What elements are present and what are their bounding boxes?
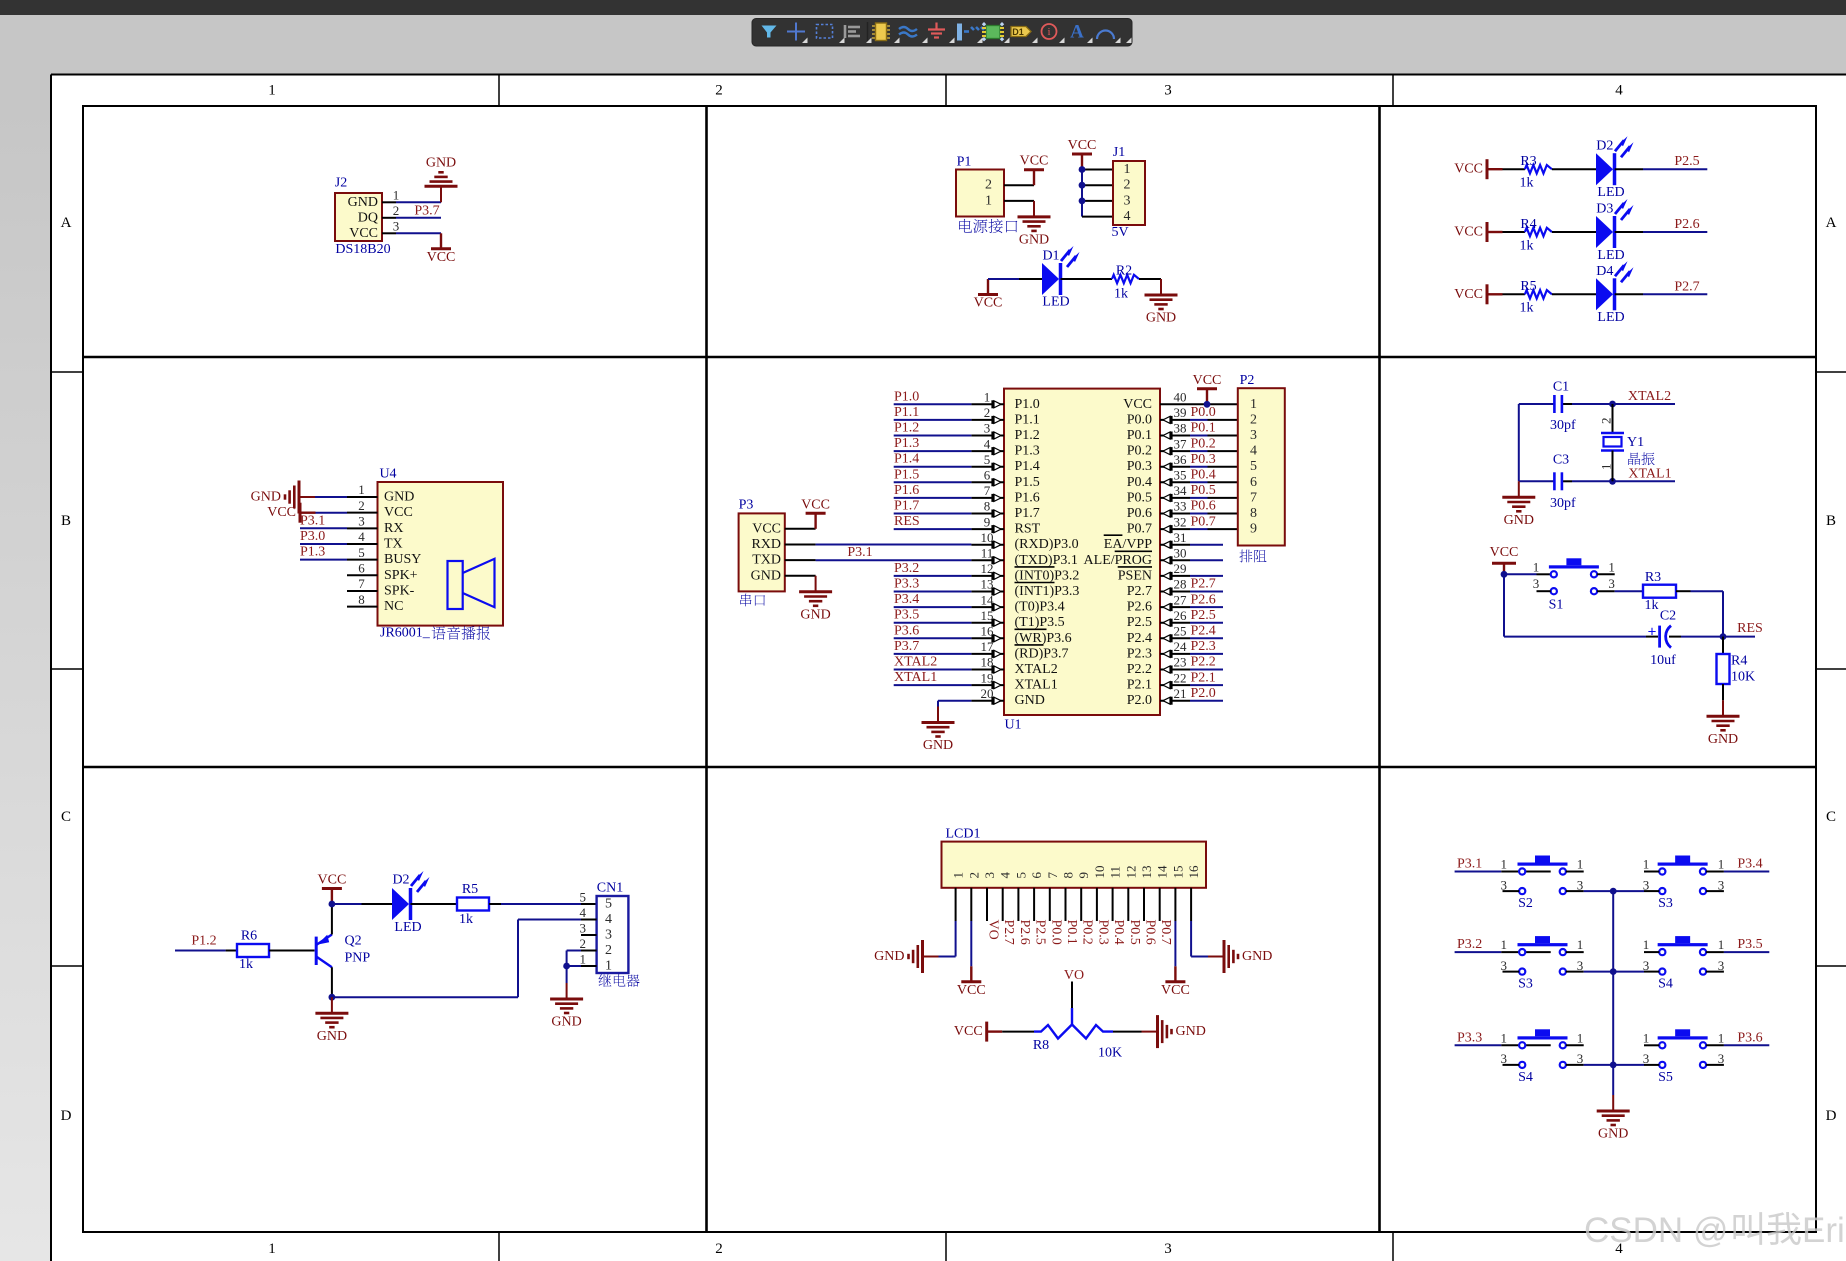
svg-text:P0.5: P0.5	[1127, 920, 1142, 945]
svg-text:(T1)P3.5: (T1)P3.5	[1015, 615, 1065, 630]
sheet outer border	[51, 74, 1846, 76]
svg-text:TX: TX	[384, 536, 403, 551]
resistor R6 1k	[237, 929, 269, 973]
svg-text:P1.0: P1.0	[894, 389, 919, 404]
svg-text:GND: GND	[1019, 233, 1049, 248]
svg-text:P2.6: P2.6	[1191, 592, 1216, 607]
wire to RES label	[1723, 636, 1755, 638]
svg-text:S2: S2	[1518, 896, 1533, 911]
J2 pin wires	[382, 188, 441, 234]
diode D4 LED	[1596, 261, 1634, 325]
svg-text:P2.6: P2.6	[1674, 217, 1699, 232]
svg-text:3: 3	[605, 928, 612, 943]
svg-text:1: 1	[1643, 857, 1650, 872]
svg-text:P1.1: P1.1	[1015, 412, 1040, 427]
ground GND (R8 right)	[1142, 1015, 1206, 1048]
wire S3 to P3.4	[1724, 871, 1769, 873]
svg-text:2: 2	[1124, 178, 1131, 193]
junction dot row2	[1610, 968, 1617, 975]
svg-text:35: 35	[1174, 468, 1187, 483]
svg-text:P0.3: P0.3	[1127, 459, 1152, 474]
wire D3 to P2.6	[1615, 231, 1708, 233]
svg-text:5: 5	[605, 897, 612, 912]
svg-text:13: 13	[981, 577, 994, 592]
svg-text:5: 5	[1250, 459, 1257, 474]
CN1 pin2 wire	[567, 951, 597, 967]
svg-text:LED: LED	[394, 920, 421, 935]
svg-text:GND: GND	[923, 738, 953, 753]
resistor R4 1k	[1520, 217, 1552, 254]
svg-text:1k: 1k	[1114, 287, 1128, 302]
diode D2 LED	[1596, 136, 1634, 200]
wire R5 to D4	[1552, 293, 1596, 295]
svg-text:VCC: VCC	[752, 521, 781, 536]
svg-text:24: 24	[1174, 639, 1188, 654]
svg-text:40: 40	[1174, 390, 1187, 405]
svg-text:P1.4: P1.4	[1015, 459, 1040, 474]
svg-text:4: 4	[1250, 444, 1257, 459]
wire bus to S4	[1613, 971, 1644, 973]
svg-text:(INT0)P3.2: (INT0)P3.2	[1015, 568, 1080, 583]
svg-text:TXD: TXD	[752, 553, 781, 568]
ground GND (R4)	[1707, 700, 1740, 747]
svg-text:P3.2: P3.2	[1457, 937, 1482, 952]
svg-text:1: 1	[1577, 1030, 1584, 1045]
connector LCD1	[942, 827, 1207, 888]
svg-text:J2: J2	[335, 176, 347, 191]
svg-text:VCC: VCC	[954, 1024, 983, 1039]
junction dot CN1 pin1	[563, 963, 570, 970]
power VCC (Q2)	[318, 873, 347, 905]
电源接口 label	[959, 219, 1017, 233]
svg-text:P0.1: P0.1	[1191, 421, 1216, 436]
svg-text:P0.3: P0.3	[1095, 920, 1110, 945]
svg-text:P3.3: P3.3	[894, 577, 919, 592]
switch S2 (left col)	[1501, 856, 1584, 912]
svg-text:P0.1: P0.1	[1064, 920, 1079, 945]
svg-text:3: 3	[1643, 1051, 1650, 1066]
power VCC (LCD pin15)	[1161, 966, 1190, 998]
svg-text:D4: D4	[1596, 264, 1613, 279]
junction dot RES	[1720, 633, 1727, 640]
svg-text:3: 3	[1577, 877, 1584, 892]
svg-text:VCC: VCC	[318, 873, 347, 888]
wire S1 to R3	[1615, 590, 1643, 592]
CN1 pin1 wire	[567, 965, 597, 967]
svg-text:4: 4	[580, 905, 587, 920]
svg-text:P1.6: P1.6	[894, 483, 919, 498]
svg-text:P3.4: P3.4	[1737, 857, 1762, 872]
svg-text:3: 3	[1124, 193, 1131, 208]
svg-text:1: 1	[1643, 937, 1650, 952]
diode D3 LED	[1596, 199, 1634, 263]
svg-text:1: 1	[580, 952, 587, 967]
svg-text:1: 1	[1250, 397, 1257, 412]
svg-text:GND: GND	[800, 608, 830, 623]
svg-text:2: 2	[358, 498, 365, 513]
net RES wire (RST)	[894, 514, 972, 529]
svg-text:P2.4: P2.4	[1127, 631, 1152, 646]
svg-text:3: 3	[1501, 877, 1508, 892]
svg-text:P0.2: P0.2	[1080, 920, 1095, 945]
svg-text:4: 4	[358, 529, 365, 544]
wire D2 to R5	[411, 903, 458, 905]
svg-text:C2: C2	[1660, 608, 1676, 623]
LCD pin15 wire to VCC	[1174, 921, 1176, 966]
CN1 pin4 wire	[518, 920, 597, 998]
svg-text:P0.6: P0.6	[1143, 920, 1158, 945]
ground GND (LCD pin1)	[874, 940, 938, 973]
junction dot pin40	[1204, 401, 1211, 408]
CN1 pin3 stub	[581, 934, 597, 936]
svg-text:B: B	[1826, 513, 1836, 529]
svg-text:D2: D2	[392, 873, 409, 888]
svg-text:P0.0: P0.0	[1127, 412, 1152, 427]
svg-text:16: 16	[1186, 865, 1201, 879]
svg-text:3: 3	[1501, 1051, 1508, 1066]
svg-text:P0.2: P0.2	[1191, 436, 1216, 451]
svg-text:7: 7	[358, 576, 365, 591]
svg-text:2: 2	[985, 178, 992, 193]
svg-text:P0.7: P0.7	[1191, 514, 1216, 529]
svg-text:DQ: DQ	[358, 210, 378, 225]
junction dot row3	[1610, 1062, 1617, 1069]
svg-text:4: 4	[984, 436, 991, 451]
svg-text:P2.6: P2.6	[1127, 600, 1152, 615]
svg-text:R3: R3	[1645, 570, 1661, 585]
connector CN1 relay	[580, 881, 629, 974]
resistor R3 1k (reset)	[1643, 570, 1676, 613]
svg-text:R8: R8	[1033, 1038, 1049, 1053]
svg-text:17: 17	[981, 639, 995, 654]
svg-text:6: 6	[1250, 475, 1257, 490]
svg-text:30: 30	[1174, 546, 1187, 561]
svg-text:P2.3: P2.3	[1191, 639, 1216, 654]
J1 bus wire	[1082, 170, 1113, 217]
svg-text:1: 1	[985, 193, 992, 208]
svg-text:1: 1	[1608, 559, 1615, 574]
svg-text:GND: GND	[1504, 513, 1534, 528]
power VCC (LCD pin2)	[957, 966, 986, 998]
wire bus to S3	[1613, 890, 1644, 892]
IC U4 JR6001 voice module	[378, 467, 504, 626]
P3 pin stubs	[785, 529, 816, 576]
power VCC (R8 left)	[954, 1022, 1002, 1042]
svg-text:XTAL1: XTAL1	[1015, 678, 1058, 693]
串口 label	[740, 594, 765, 607]
wire R4 to D3	[1552, 231, 1596, 233]
LCD pin16 wire to GND	[1191, 921, 1208, 957]
svg-text:C3: C3	[1553, 453, 1569, 468]
svg-text:DS18B20: DS18B20	[335, 242, 390, 257]
top application bar	[0, 0, 1846, 15]
wire R8 to GND	[1113, 1031, 1142, 1033]
XTAL wires	[894, 655, 972, 686]
svg-text:SPK-: SPK-	[384, 583, 415, 598]
PSEN wire	[1190, 575, 1223, 577]
svg-text:3: 3	[393, 219, 400, 234]
svg-text:19: 19	[981, 670, 994, 685]
U4 designator JR6001_语音播报	[380, 626, 490, 641]
svg-text:VCC: VCC	[1123, 397, 1152, 412]
svg-text:VCC: VCC	[384, 505, 413, 520]
connector P1 (power)	[956, 155, 1004, 217]
wire R2 to GND	[1139, 278, 1161, 280]
power VCC (J2 pin3)	[427, 233, 456, 264]
wire D4 to P2.7	[1615, 293, 1708, 295]
resistor R4 10K	[1717, 637, 1756, 701]
svg-text:23: 23	[1174, 655, 1187, 670]
switch S3 (right col)	[1643, 856, 1725, 912]
svg-text:S3: S3	[1518, 977, 1533, 992]
svg-text:P2.1: P2.1	[1127, 678, 1152, 693]
svg-text:P1.1: P1.1	[894, 405, 919, 420]
zone reference ticks	[498, 75, 500, 107]
svg-text:VCC: VCC	[427, 250, 456, 265]
svg-text:P2.0: P2.0	[1127, 693, 1152, 708]
ground GND (D1 row)	[1145, 279, 1178, 326]
svg-text:VCC: VCC	[1068, 138, 1097, 153]
svg-text:39: 39	[1174, 405, 1187, 420]
Q2 collector wire to VCC	[331, 904, 333, 935]
svg-text:15: 15	[981, 608, 994, 623]
svg-text:B: B	[61, 513, 71, 529]
power VCC (D3 row)	[1454, 222, 1502, 242]
svg-text:NC: NC	[384, 599, 403, 614]
U1 VCC pin40 wire	[1190, 403, 1238, 405]
IC U1 8051 MCU body	[1004, 389, 1160, 733]
U1 right pin stubs and numbers	[1160, 390, 1190, 705]
svg-text:1: 1	[1718, 857, 1725, 872]
junction dots J1	[1079, 166, 1086, 204]
VO wiper wire	[1071, 982, 1073, 1025]
svg-text:3: 3	[1718, 1051, 1725, 1066]
svg-text:P1.2: P1.2	[191, 934, 216, 949]
svg-text:P3.5: P3.5	[1737, 937, 1762, 952]
svg-text:VCC: VCC	[349, 226, 378, 241]
wire VCC to R5	[1503, 293, 1525, 295]
svg-text:VO: VO	[986, 920, 1001, 940]
resistor R5 1k	[1520, 279, 1552, 316]
svg-text:GND: GND	[1015, 693, 1045, 708]
svg-text:S1: S1	[1549, 598, 1564, 613]
svg-text:RES: RES	[894, 514, 920, 529]
svg-text:XTAL1: XTAL1	[1628, 467, 1671, 482]
wire VCC to D1	[988, 278, 1042, 280]
Q2 emitter wire	[331, 967, 333, 997]
svg-text:P2.5: P2.5	[1033, 920, 1048, 945]
svg-text:S4: S4	[1518, 1070, 1533, 1085]
svg-text:P0.2: P0.2	[1127, 444, 1152, 459]
svg-text:13: 13	[1139, 866, 1154, 879]
svg-text:30pf: 30pf	[1550, 496, 1576, 511]
svg-text:R5: R5	[462, 882, 478, 897]
svg-text:1k: 1k	[1520, 238, 1534, 253]
svg-text:(RXD)P3.0: (RXD)P3.0	[1015, 537, 1079, 552]
svg-text:D: D	[61, 1108, 72, 1124]
U1 right pin names	[1084, 397, 1153, 708]
svg-text:2: 2	[984, 405, 991, 420]
ground GND (J2 pin1)	[425, 156, 458, 203]
svg-text:U1: U1	[1004, 718, 1021, 733]
svg-text:S4: S4	[1658, 977, 1673, 992]
svg-text:VCC: VCC	[1454, 225, 1483, 240]
svg-text:VO: VO	[1064, 968, 1084, 983]
LCD pin2 wire to VCC	[970, 921, 972, 966]
svg-text:3: 3	[1718, 958, 1725, 973]
svg-text:1: 1	[1501, 857, 1508, 872]
svg-text:P0.7: P0.7	[1127, 522, 1152, 537]
floating toolbar	[752, 19, 1132, 47]
svg-text:GND: GND	[426, 156, 456, 171]
svg-text:VCC: VCC	[957, 983, 986, 998]
svg-text:P0.5: P0.5	[1127, 490, 1152, 505]
svg-text:P0.7: P0.7	[1158, 920, 1173, 945]
wire Q2 emitter to CN1 pin4	[332, 996, 518, 998]
svg-text:11: 11	[981, 546, 994, 561]
ground GND (U1 pin20)	[922, 707, 955, 754]
svg-text:P3.1: P3.1	[1457, 857, 1482, 872]
svg-text:3: 3	[1718, 877, 1725, 892]
svg-text:P2.7: P2.7	[1191, 577, 1216, 592]
svg-text:2: 2	[966, 872, 981, 879]
wire D1 to R2	[1061, 278, 1113, 280]
power VCC (D4 row)	[1454, 284, 1502, 304]
svg-text:P2.2: P2.2	[1191, 655, 1216, 670]
svg-text:2: 2	[715, 83, 723, 99]
svg-text:P2.1: P2.1	[1191, 670, 1216, 685]
svg-text:16: 16	[981, 624, 995, 639]
svg-text:1: 1	[1533, 559, 1540, 574]
wire VCC to R8	[1002, 1031, 1034, 1033]
svg-text:(RD)P3.7: (RD)P3.7	[1015, 646, 1069, 661]
svg-text:VCC: VCC	[1454, 287, 1483, 302]
switch S3 (left col)	[1501, 936, 1584, 992]
svg-text:P2.7: P2.7	[1001, 920, 1016, 945]
svg-text:14: 14	[981, 592, 995, 607]
svg-text:XTAL2: XTAL2	[1628, 389, 1671, 404]
svg-text:P2.5: P2.5	[1191, 608, 1216, 623]
wire bus to S5	[1613, 1064, 1644, 1066]
LCD1 pin stubs	[956, 888, 1192, 921]
svg-text:Y1: Y1	[1627, 435, 1644, 450]
power VCC (D1 row)	[974, 279, 1003, 311]
wire P1.2 to R6	[175, 950, 237, 952]
svg-text:1: 1	[358, 482, 365, 497]
svg-text:1: 1	[984, 390, 991, 405]
svg-text:VCC: VCC	[974, 296, 1003, 311]
svg-text:VCC: VCC	[1161, 983, 1190, 998]
svg-text:8: 8	[1061, 872, 1076, 879]
svg-text:1k: 1k	[459, 912, 473, 927]
wire VCC node to D2	[332, 903, 392, 905]
svg-text:CN1: CN1	[597, 881, 623, 896]
svg-text:30pf: 30pf	[1550, 418, 1576, 433]
switch S1	[1533, 558, 1615, 612]
capacitor C2 10uf electrolytic	[1648, 608, 1677, 668]
crystal Y1 晶振	[1599, 404, 1645, 481]
svg-text:5: 5	[358, 545, 365, 560]
junction dot Q2 collector	[329, 901, 336, 908]
svg-text:C: C	[61, 809, 71, 825]
svg-text:LED: LED	[1597, 310, 1624, 325]
svg-text:7: 7	[1045, 872, 1060, 879]
svg-text:A: A	[1070, 22, 1084, 43]
crystal circuit wires	[1519, 404, 1675, 481]
svg-text:GND: GND	[1176, 1024, 1206, 1039]
svg-text:VCC: VCC	[1454, 162, 1483, 177]
svg-text:Q2: Q2	[345, 934, 362, 949]
svg-text:P1.7: P1.7	[894, 499, 919, 514]
wire R5 to CN1 pin5	[489, 903, 597, 905]
svg-text:GND: GND	[1146, 311, 1176, 326]
svg-text:P1.7: P1.7	[1015, 506, 1040, 521]
svg-text:P1.3: P1.3	[894, 436, 919, 451]
svg-text:VCC: VCC	[801, 497, 830, 512]
junction dot Q2 emitter	[329, 994, 336, 1001]
svg-text:1: 1	[268, 1241, 276, 1257]
svg-text:GND: GND	[1242, 949, 1272, 964]
svg-text:P3.0: P3.0	[300, 529, 325, 544]
svg-text:1: 1	[1718, 937, 1725, 952]
svg-text:1k: 1k	[239, 957, 253, 972]
svg-text:10: 10	[1092, 866, 1107, 879]
speaker symbol	[448, 559, 495, 609]
wire S5 to P3.6	[1724, 1044, 1769, 1046]
svg-text:P3: P3	[739, 498, 754, 513]
svg-text:3: 3	[984, 421, 991, 436]
ground GND (LCD pin16)	[1208, 940, 1272, 973]
junction dot row1	[1610, 888, 1617, 895]
svg-text:5: 5	[1013, 872, 1028, 879]
diode D1 LED	[1042, 246, 1080, 310]
bottom wire VCC to C2	[1504, 574, 1658, 636]
svg-text:EA/VPP: EA/VPP	[1104, 537, 1152, 552]
transistor Q2 PNP	[316, 934, 370, 968]
ground GND (crystal)	[1502, 481, 1535, 528]
svg-text:3: 3	[1164, 83, 1172, 99]
svg-text:Eric: Eric	[1802, 1211, 1846, 1250]
svg-text:CSDN @: CSDN @	[1584, 1211, 1728, 1250]
svg-text:3: 3	[1643, 958, 1650, 973]
svg-text:8: 8	[358, 592, 365, 607]
svg-text:1: 1	[1501, 1030, 1508, 1045]
svg-text:3: 3	[580, 921, 587, 936]
svg-text:26: 26	[1174, 608, 1188, 623]
keypad bus vertical wire	[1612, 891, 1614, 1095]
svg-text:P3.6: P3.6	[1737, 1030, 1762, 1045]
svg-text:2: 2	[605, 943, 612, 958]
svg-text:3: 3	[982, 872, 997, 879]
svg-text:2: 2	[1599, 418, 1614, 425]
ground GND (P1 pin1)	[1018, 201, 1051, 248]
wire S4 to bus	[1584, 1064, 1614, 1066]
svg-text:LED: LED	[1597, 185, 1624, 200]
svg-text:R4: R4	[1731, 654, 1747, 669]
svg-text:VCC: VCC	[1020, 154, 1049, 169]
svg-text:P0.5: P0.5	[1191, 483, 1216, 498]
wires U4 pins 1-2	[315, 497, 347, 513]
svg-text:P3.1: P3.1	[300, 513, 325, 528]
wire P3.1 to S2	[1455, 871, 1551, 873]
svg-text:3: 3	[358, 514, 365, 529]
svg-text:GND: GND	[317, 1029, 347, 1044]
U1 P2.x wires	[1190, 577, 1223, 701]
svg-text:10K: 10K	[1731, 670, 1755, 685]
svg-text:4: 4	[998, 872, 1013, 879]
svg-text:PSEN: PSEN	[1118, 568, 1152, 583]
U1 P0.x wires to P2	[1190, 405, 1238, 529]
